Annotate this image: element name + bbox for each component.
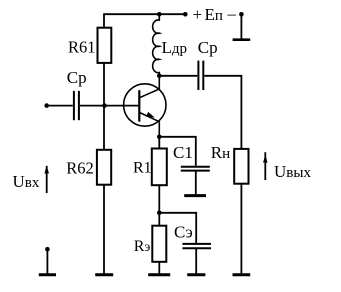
svg-text:Rн: Rн: [211, 143, 230, 162]
svg-text:Uвых: Uвых: [274, 162, 311, 181]
ground C1: [184, 194, 206, 197]
resistor R1: [158, 137, 160, 149]
capacitor C1: [181, 166, 210, 168]
svg-text:–: –: [227, 4, 237, 23]
resistor R62: [97, 150, 111, 185]
node input terminal: [44, 103, 49, 108]
inductor Ldr: [153, 14, 160, 75]
wire R62 to ground: [103, 185, 105, 274]
resistor Rn: [234, 149, 248, 184]
ground Ce: [187, 273, 205, 276]
svg-text:+: +: [193, 5, 203, 24]
wire input to Cp: [47, 105, 73, 107]
svg-text:Uвх: Uвх: [13, 172, 40, 191]
wire input ground: [46, 249, 48, 274]
wire Ce to ground: [195, 249, 197, 274]
svg-text:Lдр: Lдр: [162, 38, 188, 57]
transistor Q1: [124, 84, 166, 126]
node Ep minus: [239, 12, 244, 17]
node collector: [157, 74, 162, 79]
wire R61 top: [103, 13, 105, 27]
label Uvx with arrow: [13, 172, 40, 191]
wire Cp out to Rn: [204, 76, 241, 149]
svg-text:R1: R1: [133, 159, 152, 176]
ground Ep: [233, 38, 251, 41]
ground Re: [148, 273, 170, 276]
node Ep plus: [183, 12, 188, 17]
label Uvyx with arrow: [274, 162, 311, 181]
wire Re to ground: [158, 262, 160, 274]
svg-text:R61: R61: [68, 38, 96, 57]
wire Cp to base: [80, 105, 139, 107]
wire R61 bottom to R62 top: [103, 63, 105, 150]
svg-text:Ср: Ср: [198, 38, 218, 57]
node emitter: [157, 135, 162, 140]
wire node to Ce: [159, 213, 196, 243]
ground input: [39, 273, 56, 276]
wire Rn to ground: [240, 184, 242, 274]
node base: [102, 103, 107, 108]
svg-text:C1: C1: [173, 143, 193, 162]
resistor R61: [98, 28, 112, 63]
capacitor Cp input: [73, 91, 75, 120]
wire R1 to node: [158, 185, 160, 213]
wire Ep to ground: [240, 14, 242, 39]
node R1-Re: [157, 211, 162, 216]
label +Ep-: [193, 4, 237, 24]
wire collector to Cp out: [159, 75, 197, 77]
svg-text:Еп: Еп: [205, 5, 223, 24]
wire emitter to C1: [159, 137, 196, 166]
svg-text:Сэ: Сэ: [174, 222, 193, 241]
node input ground terminal: [45, 247, 50, 252]
ground Rn: [233, 273, 251, 276]
svg-text:Ср: Ср: [67, 68, 87, 87]
wire C1 to ground: [195, 172, 197, 195]
svg-text:R62: R62: [66, 158, 94, 177]
ground R62: [95, 273, 113, 276]
node Ldr top: [157, 12, 162, 17]
svg-text:Rэ: Rэ: [134, 238, 151, 255]
capacitor Cp output: [197, 61, 199, 90]
wire top rail: [104, 13, 185, 15]
resistor Re: [158, 213, 160, 226]
capacitor Ce: [182, 243, 211, 245]
